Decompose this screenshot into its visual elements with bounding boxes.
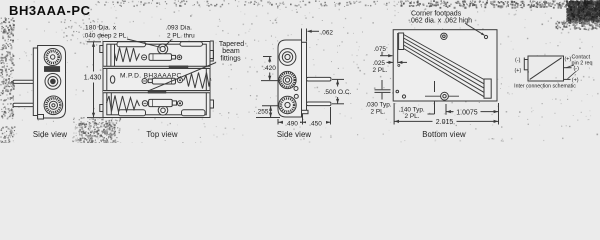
svg-text:(-): (-) xyxy=(515,57,521,63)
svg-text:2 PL.: 2 PL. xyxy=(373,67,388,74)
svg-text:.490: .490 xyxy=(285,120,298,127)
svg-text:Side view: Side view xyxy=(277,130,312,139)
svg-text:Bottom view: Bottom view xyxy=(422,130,466,139)
svg-text:2 PL. thru: 2 PL. thru xyxy=(167,33,195,40)
svg-text:1.430: 1.430 xyxy=(84,75,102,82)
svg-text:2 PL.: 2 PL. xyxy=(405,113,420,120)
svg-text:.450: .450 xyxy=(309,120,322,127)
svg-text:.500 O.C.: .500 O.C. xyxy=(324,89,352,96)
svg-text:.030 Typ.: .030 Typ. xyxy=(365,102,391,109)
svg-text:.255: .255 xyxy=(256,109,269,116)
svg-text:.062 dia. x .062 high: .062 dia. x .062 high xyxy=(409,18,472,25)
svg-text:2 PL.: 2 PL. xyxy=(371,109,386,116)
svg-text:beam: beam xyxy=(222,48,240,55)
svg-text:Top view: Top view xyxy=(146,130,177,139)
svg-text:.025: .025 xyxy=(373,60,386,67)
svg-text:BH3AAA-PC: BH3AAA-PC xyxy=(9,3,91,18)
svg-text:1.0075: 1.0075 xyxy=(456,109,478,116)
svg-text:Corner footpads: Corner footpads xyxy=(411,10,462,17)
svg-text:.180 Dia. x: .180 Dia. x xyxy=(83,25,117,32)
svg-text:.075: .075 xyxy=(374,46,387,53)
svg-text:fittings: fittings xyxy=(220,55,241,62)
svg-text:pin 2 req: pin 2 req xyxy=(572,61,593,67)
svg-text:.040 deep 2 PL.: .040 deep 2 PL. xyxy=(83,33,128,40)
svg-text:(+): (+) xyxy=(572,78,579,84)
svg-text:(+): (+) xyxy=(565,56,572,62)
svg-text:.420: .420 xyxy=(263,65,276,72)
svg-text:Inter connection schematic: Inter connection schematic xyxy=(514,84,576,90)
svg-text:(+): (+) xyxy=(515,68,522,74)
svg-text:2.015: 2.015 xyxy=(436,119,454,126)
svg-text:.062: .062 xyxy=(321,29,334,36)
svg-text:Tapered: Tapered xyxy=(219,41,244,48)
svg-text:.093 Dia.: .093 Dia. xyxy=(166,25,193,32)
svg-text:Side view: Side view xyxy=(33,130,68,139)
